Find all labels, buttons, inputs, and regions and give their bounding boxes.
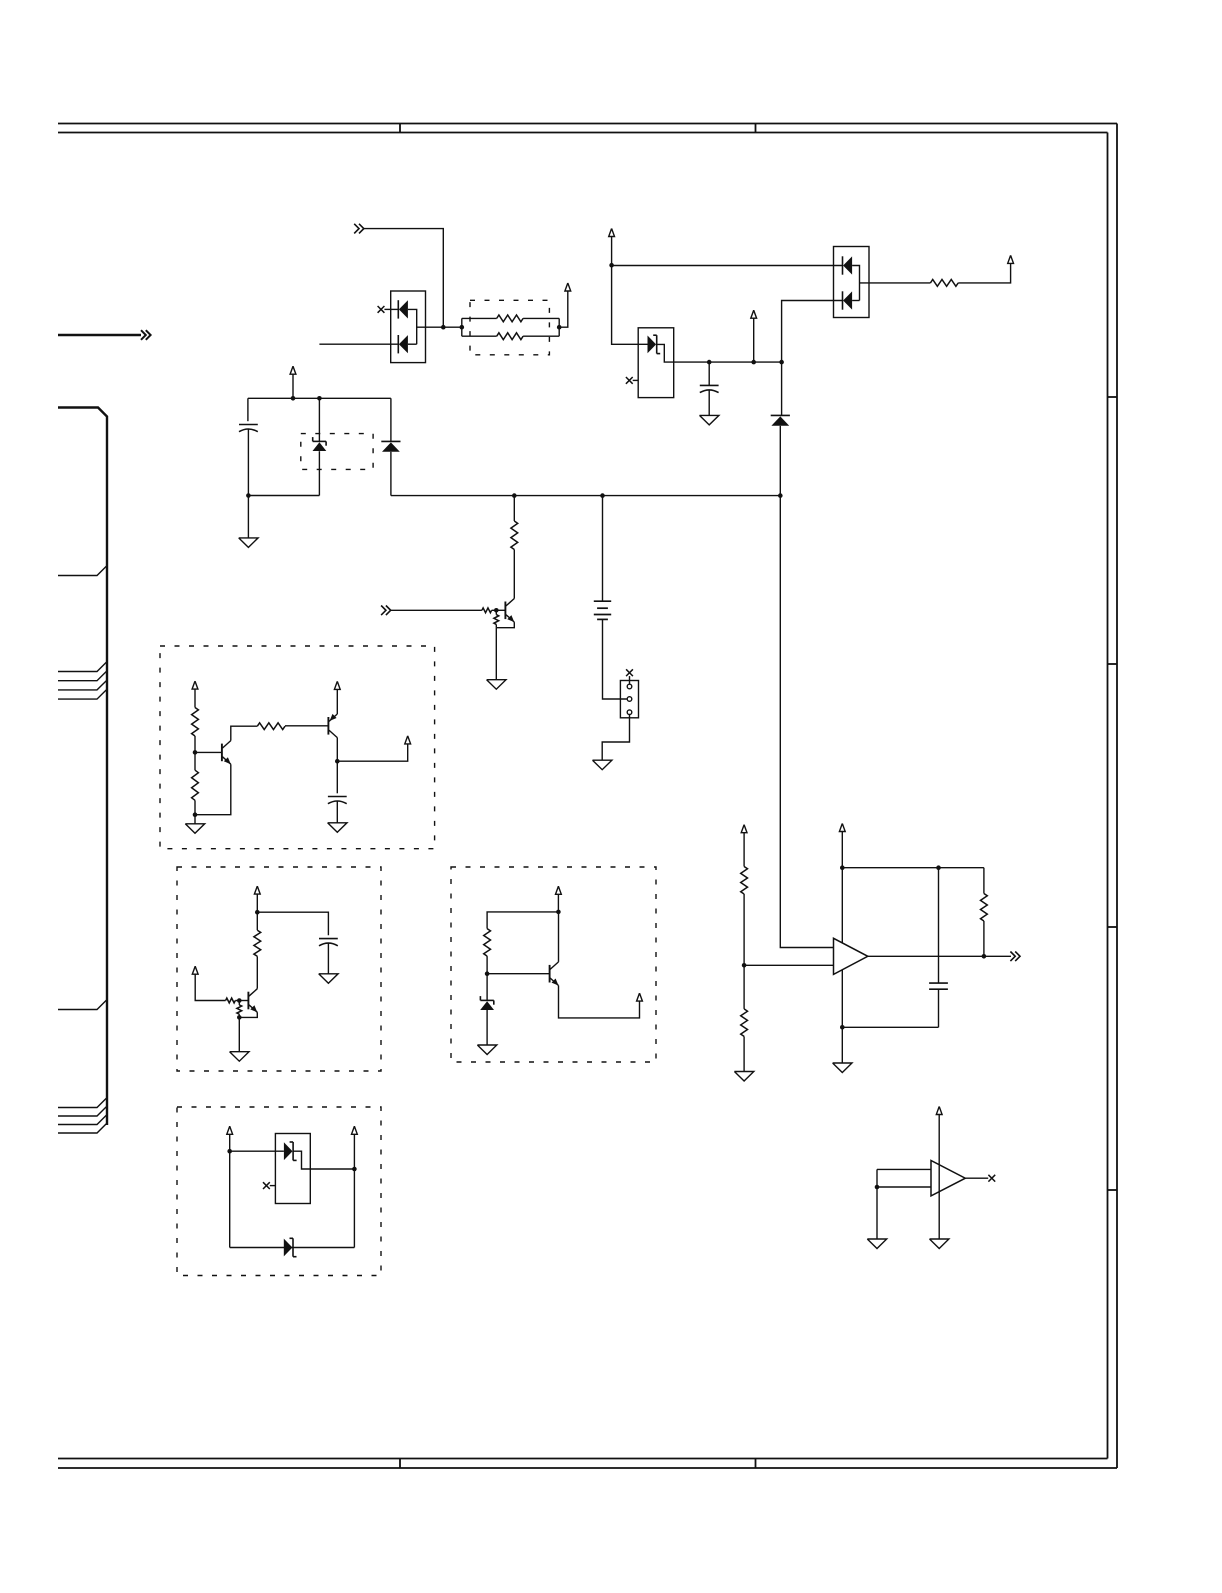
junction dot net G at resistor R5 xyxy=(512,493,517,498)
wire D1 output to resistor network xyxy=(417,326,462,328)
wire arrow to junction box3 xyxy=(557,894,559,912)
wire Q3 collector down to node xyxy=(336,738,338,762)
resistor R17 (feedback) xyxy=(983,868,985,894)
junction dot Q5 base node xyxy=(485,971,490,976)
diode D1a cathode bar xyxy=(397,300,399,318)
transistor Q4 emitter diagonal with arrow xyxy=(249,1005,257,1013)
junction dot box4 right rail xyxy=(352,1167,357,1172)
wire R15 to divider node xyxy=(743,894,745,965)
wire to power arrow xyxy=(559,291,568,328)
zener diode Z4 body xyxy=(284,1142,293,1160)
power arrow box1 right xyxy=(405,736,411,744)
connector J1 pin 1 circle xyxy=(627,684,632,689)
wire U2 lower input xyxy=(877,1186,931,1188)
power arrow on net E xyxy=(290,366,296,374)
wire junction to resistor R14 xyxy=(487,912,558,929)
wire box4 left rail xyxy=(229,1134,231,1247)
wire arrow to resistor R15 xyxy=(743,833,745,867)
sheet border outer top line xyxy=(58,123,1117,125)
power arrow box1 left xyxy=(192,681,198,689)
ground box3 xyxy=(477,1045,496,1055)
capacitor C1 (polarized) xyxy=(239,424,258,426)
zener diode Z4 cathode bar with hooks xyxy=(292,1142,294,1160)
wire D1b anode xyxy=(408,343,417,345)
junction dot U1 power node xyxy=(840,865,845,870)
wire D3 output to resistor R4 xyxy=(860,282,931,284)
ground below U2 inputs xyxy=(867,1239,886,1249)
diode D1b body xyxy=(399,335,408,353)
zener diode Z1 cathode bar with hooks xyxy=(656,335,658,353)
junction dot net E at zener Z2 xyxy=(317,396,322,401)
wire zener Z2 branch upper xyxy=(318,398,320,441)
junction dot net G at battery xyxy=(600,493,605,498)
ground below C1 xyxy=(239,538,258,548)
transistor Q3 base bar xyxy=(327,717,329,735)
ground below C2 xyxy=(700,415,719,425)
wire J1 pin 3 to ground xyxy=(602,715,629,760)
diode D1a body xyxy=(399,300,408,318)
zener diode Z2 cathode bar with hooks xyxy=(313,440,326,442)
border zone tick right 1 xyxy=(1108,396,1118,398)
border zone tick right 4 xyxy=(1108,1189,1118,1191)
junction dot at Q1 base xyxy=(494,608,499,613)
feedback top wire xyxy=(842,867,984,869)
power arrow node B xyxy=(609,229,615,237)
chevron arrow on signal wire xyxy=(141,330,146,340)
zener diode Z1 body xyxy=(648,336,657,354)
junction dot below C1 xyxy=(246,493,251,498)
input chevron arrow top xyxy=(354,224,359,234)
connector J1 pin 3 circle xyxy=(627,710,632,715)
resistor R11 xyxy=(256,912,258,930)
battery BT1 plates xyxy=(594,600,611,602)
wire Q3 emitter to power arrow xyxy=(336,689,338,714)
diode D2 cathode bar xyxy=(771,414,790,416)
resistor R4 xyxy=(930,280,958,287)
wire to resistor R8 xyxy=(194,689,196,707)
capacitor C3 (polarized) xyxy=(328,796,347,798)
junction dot net C at power arrow xyxy=(751,360,756,365)
wire R8 to base node xyxy=(194,736,196,752)
resistor R5 xyxy=(513,496,515,521)
diode pack D3 box xyxy=(834,247,870,318)
resistor R16 xyxy=(743,965,745,1009)
no-connect X on U2 output xyxy=(988,1175,995,1182)
power arrow above U1 xyxy=(839,824,845,832)
wire Z2 anode down to net F xyxy=(318,451,320,495)
junction dot at U1 output xyxy=(982,954,987,959)
node D junction dot xyxy=(778,493,783,498)
bus entry wire 6 xyxy=(58,1000,106,1009)
transistor Q2 base bar xyxy=(221,744,223,762)
power arrow box2 top xyxy=(254,886,260,894)
wire stub X to U4 xyxy=(270,1185,276,1187)
bus entry wire 8 xyxy=(58,1107,106,1116)
power arrow net C xyxy=(751,310,757,318)
wire R6 to Q1 base xyxy=(492,609,506,611)
wire D2 anode down to node D xyxy=(779,426,781,496)
diode D4 body xyxy=(382,442,400,451)
power arrow above R1 R2 xyxy=(565,283,571,291)
connector J1 pin 2 circle xyxy=(627,697,632,702)
wire chevron to base resistor R6 xyxy=(391,609,482,611)
junction dot at capacitor C5 top xyxy=(936,865,941,870)
wire node to ground below Q1 xyxy=(495,628,497,680)
dashed function box 3 xyxy=(451,867,656,1062)
wire U1 power rail vertical xyxy=(841,832,843,1064)
wire Z1 cathode elbow to net C xyxy=(657,344,782,362)
wire U1 output xyxy=(868,955,1011,957)
wire battery to connector J1 xyxy=(603,619,627,699)
bus entry wire 5 xyxy=(58,690,106,699)
wire arrow to junction xyxy=(256,894,258,912)
junction dot U1 ground node xyxy=(840,1025,845,1030)
zener diode Z5 cathode bar with hooks xyxy=(292,1238,294,1256)
wire node B to diode pack D3 top xyxy=(612,265,843,267)
dashed function box 1 xyxy=(160,646,435,849)
wire stub X to J1 pin 1 xyxy=(629,676,631,684)
resistor R14 xyxy=(484,929,491,957)
bus entry wire 4 xyxy=(58,681,106,690)
dashed option box around R1 R2 xyxy=(470,300,549,355)
bus entry wire 3 xyxy=(58,672,106,681)
bus entry wire 1 xyxy=(58,566,106,575)
wire Q2 emitter down to node xyxy=(195,764,231,815)
net F left segment xyxy=(248,495,319,497)
zener diode Z3 body xyxy=(480,1001,494,1010)
resistor R2 bottom branch xyxy=(462,335,497,337)
wire left edge of R1 R2 loop xyxy=(461,318,463,336)
wire diode D4 branch xyxy=(390,398,392,441)
wire D3b anode xyxy=(852,300,859,302)
wire tying U2 inputs xyxy=(876,1169,878,1187)
resistor R6 (base) xyxy=(482,608,492,613)
output chevron arrow xyxy=(1010,952,1015,962)
diode D3b cathode bar xyxy=(842,291,844,309)
border zone tick top 2 xyxy=(755,124,757,133)
bus line (thick) xyxy=(58,408,107,1126)
comparator U2 triangle xyxy=(931,1161,965,1196)
zener diode Z5 body xyxy=(284,1239,293,1257)
transistor Q1 collector diagonal xyxy=(506,599,514,607)
zener diode Z3 cathode bar with hooks xyxy=(480,999,493,1001)
resistor R8 xyxy=(192,708,199,737)
junction dot box3 top xyxy=(556,910,561,915)
wire node B vertical xyxy=(611,237,613,266)
capacitor C5 wire top xyxy=(938,868,940,983)
junction dot U2 inputs xyxy=(875,1185,880,1190)
junction dot emitter node box1 xyxy=(193,812,198,817)
ground below R16 xyxy=(734,1072,753,1082)
power arrow box4 right xyxy=(352,1126,358,1134)
wire Q5 emitter to power arrow xyxy=(559,986,640,1018)
power arrow above Q3 xyxy=(334,681,340,689)
wire net C down to diode D2 xyxy=(781,362,783,415)
wire R16 to ground xyxy=(743,1036,745,1071)
wire U2 output xyxy=(965,1177,988,1179)
resistor R12 (base) xyxy=(226,998,236,1003)
wire to opto U4 input xyxy=(230,1150,284,1152)
border zone tick right 2 xyxy=(1108,663,1118,665)
transistor Q2 emitter diagonal with arrow xyxy=(222,757,230,765)
sheet border inner bottom line xyxy=(58,1458,1108,1460)
wire net E down to capacitor C1 xyxy=(247,398,249,421)
diode D3a body xyxy=(843,256,852,274)
transistor Q4 base bar xyxy=(247,992,249,1010)
wire D1a anode to internal bus xyxy=(408,309,417,344)
capacitor C5 wire bottom xyxy=(938,989,940,1027)
wire Z4 cathode elbow to right rail xyxy=(293,1151,354,1169)
border zone tick top 1 xyxy=(399,124,401,133)
transistor Q5 base bar xyxy=(549,965,551,983)
wire box4 right rail xyxy=(353,1134,355,1247)
wire power arrow to net C xyxy=(753,318,755,362)
junction dot Q4 emitter node xyxy=(237,1015,242,1020)
wire U2 upper input xyxy=(877,1168,931,1170)
wire U2 inputs to ground xyxy=(876,1187,878,1239)
wire R12 to Q4 base xyxy=(235,1000,248,1002)
sheet border inner top line xyxy=(58,132,1108,134)
wire Q1 emitter to node xyxy=(496,622,514,628)
no-connect X on U3 pin 2 xyxy=(626,377,633,384)
wire into D1b from net xyxy=(319,343,398,345)
wire net G down to battery BT1 xyxy=(602,496,604,602)
off-page signal wire with chevron arrow xyxy=(58,334,141,336)
resistor R10 xyxy=(257,723,285,730)
junction dot Q2 base node xyxy=(193,750,198,755)
node junction dot left of R1 R2 xyxy=(460,325,465,330)
bus entry wire 2 xyxy=(58,662,106,671)
resistor R1 top branch xyxy=(462,317,497,319)
power arrow box4 left xyxy=(227,1126,233,1134)
wire right edge of R1 R2 loop xyxy=(558,318,560,336)
wire Q5 collector riser xyxy=(558,912,560,962)
wire D3a anode to internal bus xyxy=(852,266,859,301)
diode D2 body xyxy=(771,416,789,425)
power arrow box2 left xyxy=(192,966,198,974)
dashed function box 2 xyxy=(177,867,381,1071)
wire base node to Q5 xyxy=(487,973,549,975)
no-connect X on D1 pin 1 xyxy=(378,306,385,313)
wire collector node to power arrow right xyxy=(337,744,407,761)
capacitor C2 (polarized) xyxy=(708,362,710,385)
connector J1 box xyxy=(620,681,638,718)
dashed function box 4 xyxy=(177,1107,381,1276)
wire node to ground box2 xyxy=(238,1017,240,1051)
diode D4 cathode bar xyxy=(381,440,400,442)
resistor R7 (base pulldown) xyxy=(495,610,497,614)
capacitor C4 (polarized) xyxy=(319,938,338,940)
junction dot divider node xyxy=(742,963,747,968)
transistor Q5 emitter diagonal with arrow xyxy=(550,978,558,986)
junction dot Q4 base xyxy=(237,998,242,1003)
resistor R15 xyxy=(741,867,748,895)
wire base node down to zener Z3 xyxy=(486,974,488,1001)
wire U2 power rail vertical xyxy=(938,1115,940,1240)
resistor R9 xyxy=(194,752,196,770)
wire to ground below C1 xyxy=(247,496,249,538)
dashed option box around Z2 xyxy=(301,434,373,470)
wire node B down to zener U3 xyxy=(612,265,648,344)
wire base node to Q2 xyxy=(195,751,222,753)
junction dot box4 left rail xyxy=(227,1149,232,1154)
transistor Q3 collector diagonal xyxy=(329,730,337,738)
ground box1 xyxy=(185,824,204,834)
node A junction dot xyxy=(441,325,446,330)
wire junction to capacitor C4 xyxy=(257,912,328,935)
diode pack D1 box xyxy=(391,291,426,363)
junction dot net E at power arrow xyxy=(291,396,296,401)
ground below C4 xyxy=(319,974,338,984)
wire R14 to base node xyxy=(486,956,488,974)
sheet border outer right line xyxy=(1116,124,1118,1469)
wire Q2 collector up and right xyxy=(231,726,257,740)
no-connect X above J1 pin 1 xyxy=(626,669,633,676)
junction dot Q3 collector node xyxy=(335,759,340,764)
border zone tick right 3 xyxy=(1108,926,1118,928)
wire Q4 emitter to node xyxy=(239,1012,257,1017)
input chevron arrow to Q1 base xyxy=(381,606,386,616)
power arrow divider rail xyxy=(741,825,747,833)
bus entry wire 7 xyxy=(58,1098,106,1107)
feedback bottom wire xyxy=(842,1026,938,1028)
transistor Q4 collector diagonal xyxy=(249,989,257,997)
wire stub X to D1 xyxy=(384,308,398,310)
ground box2 xyxy=(230,1052,249,1062)
transistor Q1 base bar xyxy=(504,602,506,620)
junction dot box2 top xyxy=(255,910,260,915)
ground below Q1 xyxy=(487,680,506,690)
wire riser to diode pack D3 bottom xyxy=(782,301,843,363)
junction dot net C right end xyxy=(779,360,784,365)
wire Z3 to ground xyxy=(486,1010,488,1045)
net E horizontal wire xyxy=(248,397,391,399)
zener box U3 xyxy=(638,328,674,398)
wire R4 to power arrow xyxy=(958,263,1010,283)
wire stub X to U3 xyxy=(633,379,639,381)
border zone tick bottom 2 xyxy=(755,1459,757,1469)
zener diode Z2 body xyxy=(313,442,327,451)
ground below U2 power rail xyxy=(930,1239,949,1249)
wire node to ground box1 xyxy=(194,815,196,824)
sheet border inner right line xyxy=(1107,133,1109,1459)
sheet border outer bottom line xyxy=(58,1467,1117,1469)
ground below J1 xyxy=(593,760,612,770)
node B junction dot xyxy=(609,263,614,268)
wire D4 anode down to net G xyxy=(390,452,392,496)
wire power arrow to net E xyxy=(292,374,294,398)
transistor Q2 collector diagonal xyxy=(222,741,230,749)
border zone tick bottom 1 xyxy=(399,1459,401,1469)
net G horizontal wire xyxy=(391,495,780,497)
wire box4 bottom rail xyxy=(230,1247,355,1249)
ground below U1 xyxy=(833,1063,852,1073)
power arrow box3 top xyxy=(556,886,562,894)
bus entry wire 9 xyxy=(58,1115,106,1124)
power arrow above U2 xyxy=(936,1107,942,1115)
no-connect X on U4 pin 3 xyxy=(263,1182,270,1189)
diode D1b cathode bar xyxy=(397,335,399,353)
diode D3a cathode bar xyxy=(842,256,844,274)
wire R10 to Q3 base xyxy=(285,725,328,727)
power arrow right of R4 xyxy=(1008,255,1014,263)
wire from chevron to node A xyxy=(364,229,444,328)
wire divider node to U1 inverting input xyxy=(744,964,833,966)
opto U4 box xyxy=(275,1134,310,1204)
diode D3b body xyxy=(843,291,852,309)
bus entry wire 10 xyxy=(58,1124,106,1133)
transistor Q5 collector diagonal xyxy=(550,962,558,970)
wire collector node down to capacitor C3 xyxy=(336,761,338,793)
resistor R13 (pulldown) xyxy=(238,1001,240,1005)
op-amp U1 triangle xyxy=(834,938,868,974)
ground below C3 xyxy=(328,823,347,833)
capacitor C5 xyxy=(929,982,948,984)
node junction dot right of R1 R2 xyxy=(557,325,562,330)
wire arrow to base resistor R12 xyxy=(195,974,225,1000)
transistor Q3 emitter diagonal with arrow xyxy=(329,714,337,722)
transistor Q1 emitter diagonal with arrow xyxy=(506,615,514,623)
junction dot net C at capacitor C2 xyxy=(707,360,712,365)
power arrow box3 right xyxy=(637,993,643,1001)
wire node D down to op-amp U1 input xyxy=(780,496,833,948)
